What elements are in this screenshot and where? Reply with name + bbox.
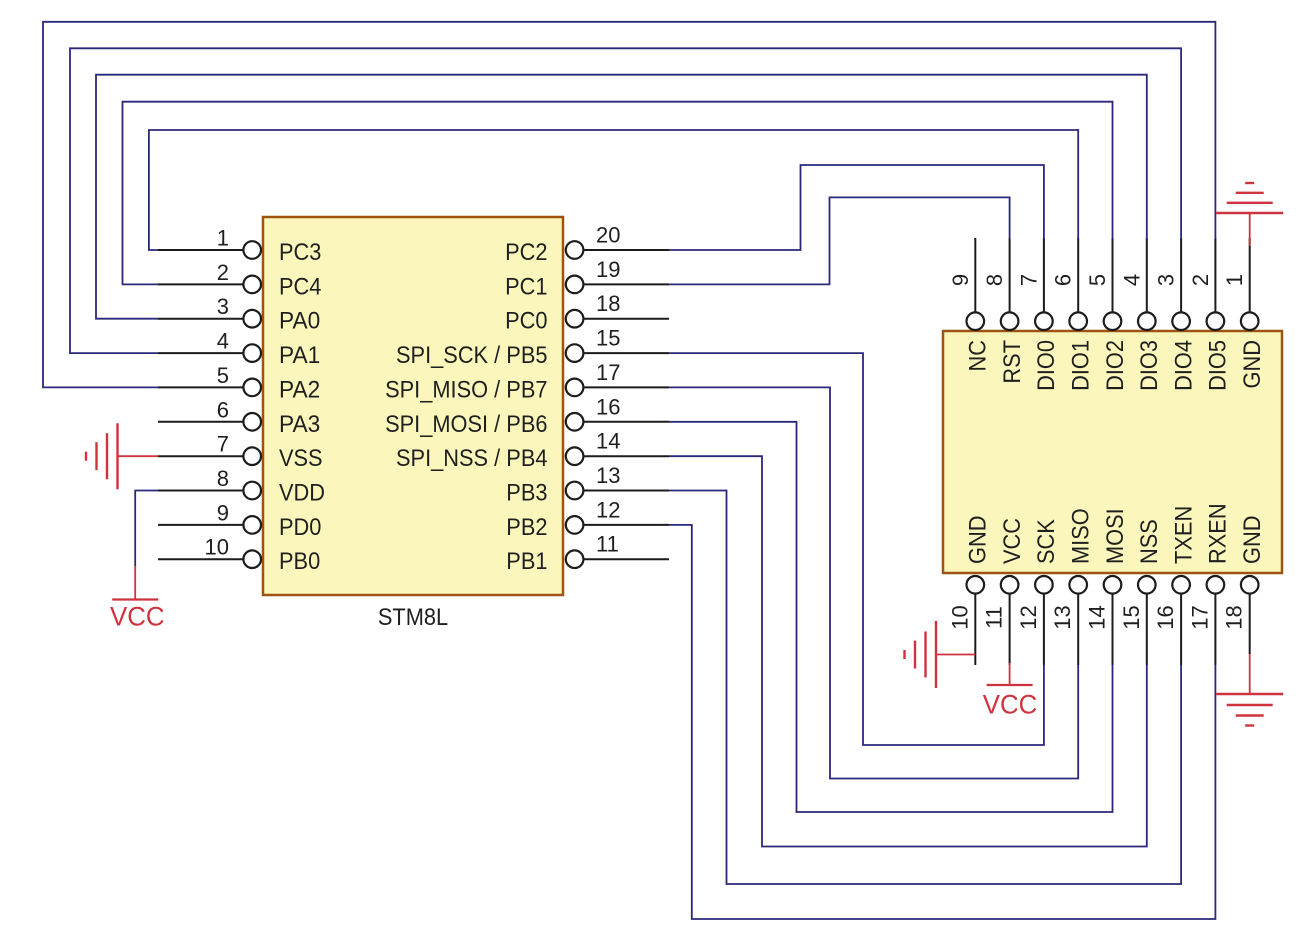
U2 pin 12 (SCK) bottom lead <box>1043 594 1045 665</box>
U2 pin 15 (NSS) bottom lead <box>1146 594 1148 665</box>
U2 pin 12 circle <box>1035 576 1053 594</box>
U2 pin 10 (GND) bottom lead <box>974 594 976 665</box>
svg-text:VCC: VCC <box>110 602 165 632</box>
ground symbol GND at U2 pin10 pointing left <box>905 621 937 688</box>
svg-text:PB0: PB0 <box>279 548 320 575</box>
svg-text:11: 11 <box>596 532 619 557</box>
U2 pin 6 circle <box>1069 312 1087 330</box>
U2 pin 7 circle <box>1035 312 1053 330</box>
svg-text:8: 8 <box>217 466 229 491</box>
U1 pin 6 circle <box>243 413 261 431</box>
svg-text:14: 14 <box>1085 605 1110 629</box>
svg-text:11: 11 <box>982 606 1007 629</box>
U1 pin 2 (PC4) left lead <box>158 283 243 285</box>
svg-text:RXEN: RXEN <box>1205 503 1232 564</box>
svg-text:MOSI: MOSI <box>1102 508 1129 564</box>
U1 pin 13 circle <box>566 482 584 500</box>
svg-text:SPI_SCK / PB5: SPI_SCK / PB5 <box>396 342 548 369</box>
U1 pin 5 circle <box>243 379 261 397</box>
IC U2 RF module body <box>943 331 1282 573</box>
ground symbol GND at VSS pointing left <box>86 423 118 489</box>
U2 pin 5 (DIO2) top lead <box>1112 238 1114 312</box>
wire net PA0-DIO3 <box>96 75 1147 319</box>
svg-text:1: 1 <box>217 226 229 251</box>
svg-text:PC3: PC3 <box>279 239 321 266</box>
U1 pin 7 (VSS) left lead <box>158 455 243 457</box>
ground symbol GND bottom-right pointing down <box>1216 694 1283 726</box>
U1 pin 7 circle <box>243 447 261 465</box>
U2 pin 8 circle <box>1001 312 1019 330</box>
svg-text:VCC: VCC <box>999 518 1026 564</box>
U2 pin 7 (DIO0) top lead <box>1043 238 1045 312</box>
svg-text:13: 13 <box>596 463 620 488</box>
U1 pin 8 circle <box>243 482 261 500</box>
U1 pin 13 (PB3) right lead <box>583 490 669 492</box>
power symbol VCC below U2 <box>987 684 1033 686</box>
svg-text:GND: GND <box>965 516 992 565</box>
wire net PC1-RST <box>669 197 1010 284</box>
U2 pin 9 circle <box>967 312 985 330</box>
U1 pin 19 circle <box>566 276 584 294</box>
wire net PA1-DIO4 <box>70 48 1181 353</box>
svg-text:9: 9 <box>948 274 973 286</box>
U1 pin 14 circle <box>566 447 584 465</box>
U1 pin 19 (PC1) right lead <box>583 283 669 285</box>
svg-text:3: 3 <box>1154 274 1179 286</box>
U2 pin 15 circle <box>1138 576 1156 594</box>
U1 pin 3 (PA0) left lead <box>158 318 243 320</box>
wire net VDD-VCC <box>135 491 158 567</box>
svg-text:RST: RST <box>999 340 1026 384</box>
svg-text:MISO: MISO <box>1068 508 1095 564</box>
U1 pin 5 (PA2) left lead <box>158 386 243 388</box>
svg-text:10: 10 <box>205 535 229 560</box>
svg-text:DIO1: DIO1 <box>1068 340 1095 391</box>
svg-text:PA1: PA1 <box>279 342 320 369</box>
U1 pin 4 (PA1) left lead <box>158 352 243 354</box>
svg-text:17: 17 <box>596 360 620 385</box>
U2 pin 16 (TXEN) bottom lead <box>1180 594 1182 665</box>
wire net PC3-DIO1 <box>149 130 1078 250</box>
svg-text:NC: NC <box>965 340 992 372</box>
svg-text:PB2: PB2 <box>506 514 547 541</box>
svg-text:12: 12 <box>1016 605 1041 629</box>
U2 pin 6 (DIO1) top lead <box>1077 238 1079 312</box>
U2 pin 4 circle <box>1138 312 1156 330</box>
U1 pin 12 circle <box>566 516 584 534</box>
U1 pin 10 (PB0) left lead <box>158 558 243 560</box>
U1 pin 15 circle <box>566 344 584 362</box>
svg-text:SPI_NSS / PB4: SPI_NSS / PB4 <box>396 445 548 472</box>
U2 pin 1 (GND) top lead <box>1249 238 1251 312</box>
svg-text:12: 12 <box>596 497 620 522</box>
svg-text:PB3: PB3 <box>506 480 547 507</box>
svg-text:PB1: PB1 <box>506 548 547 575</box>
U1 pin 8 (VDD) left lead <box>158 490 243 492</box>
svg-text:6: 6 <box>1051 274 1076 286</box>
svg-text:18: 18 <box>1222 605 1247 629</box>
wire red to VCC at pin11 <box>1009 663 1011 685</box>
svg-text:VDD: VDD <box>279 480 325 507</box>
wire net MOSI <box>669 422 1113 812</box>
wire red to GND at VSS <box>118 455 159 457</box>
svg-text:NSS: NSS <box>1136 519 1163 564</box>
U2 pin 11 (VCC) bottom lead <box>1009 594 1011 665</box>
U2 pin 3 circle <box>1172 312 1190 330</box>
IC U1 STM8L body <box>263 217 563 595</box>
svg-text:SPI_MISO / PB7: SPI_MISO / PB7 <box>385 376 547 403</box>
svg-text:1: 1 <box>1222 274 1247 286</box>
U1 pin 20 circle <box>566 241 584 259</box>
U1 pin 4 circle <box>243 344 261 362</box>
svg-text:9: 9 <box>217 500 229 525</box>
svg-text:VSS: VSS <box>279 445 323 472</box>
svg-text:DIO4: DIO4 <box>1170 340 1197 391</box>
wire net NSS <box>669 456 1147 846</box>
svg-text:PC0: PC0 <box>505 308 547 335</box>
svg-text:7: 7 <box>217 432 229 457</box>
svg-text:PC1: PC1 <box>505 273 547 300</box>
svg-text:20: 20 <box>596 223 620 248</box>
wire net TXEN <box>669 491 1181 885</box>
svg-text:14: 14 <box>596 429 620 454</box>
svg-text:PA3: PA3 <box>279 411 320 438</box>
svg-text:PA0: PA0 <box>279 308 320 335</box>
U1 pin 9 circle <box>243 516 261 534</box>
power symbol VCC below U1 <box>112 598 158 600</box>
svg-text:PD0: PD0 <box>279 514 321 541</box>
svg-text:GND: GND <box>1239 516 1266 565</box>
svg-text:STM8L: STM8L <box>378 604 448 631</box>
svg-text:15: 15 <box>596 326 620 351</box>
U1 pin 9 (PD0) left lead <box>158 524 243 526</box>
wire net PC4-DIO2 <box>123 102 1113 285</box>
wire net MISO <box>669 387 1078 778</box>
U1 pin 2 circle <box>243 276 261 294</box>
U2 pin 9 (NC) top lead <box>974 238 976 312</box>
U2 pin 1 circle <box>1241 312 1259 330</box>
svg-text:VCC: VCC <box>983 690 1038 720</box>
U2 pin 3 (DIO4) top lead <box>1180 238 1182 312</box>
U1 pin 12 (PB2) right lead <box>583 524 669 526</box>
svg-text:TXEN: TXEN <box>1170 506 1197 564</box>
U2 pin 13 circle <box>1069 576 1087 594</box>
U2 pin 18 (GND) bottom lead <box>1249 594 1251 654</box>
U2 pin 14 (MOSI) bottom lead <box>1112 594 1114 665</box>
svg-text:GND: GND <box>1239 340 1266 389</box>
svg-text:6: 6 <box>217 397 229 422</box>
svg-text:15: 15 <box>1119 605 1144 629</box>
U1 pin 3 circle <box>243 310 261 328</box>
svg-text:10: 10 <box>947 605 972 629</box>
svg-text:PC2: PC2 <box>505 239 547 266</box>
U2 pin 2 (DIO5) top lead <box>1214 238 1216 312</box>
svg-text:DIO2: DIO2 <box>1102 340 1129 391</box>
U1 pin 17 (SPI_MISO / PB7) right lead <box>583 386 669 388</box>
U2 pin 11 circle <box>1001 576 1019 594</box>
wire net SCK <box>669 353 1044 745</box>
U1 pin 20 (PC2) right lead <box>583 249 669 251</box>
wire net RXEN <box>669 525 1215 919</box>
U2 pin 16 circle <box>1172 576 1190 594</box>
svg-text:19: 19 <box>596 257 620 282</box>
wire net PA2-DIO5 <box>43 22 1215 388</box>
U1 pin 18 circle <box>566 310 584 328</box>
svg-text:5: 5 <box>1085 274 1110 286</box>
svg-text:PA2: PA2 <box>279 376 320 403</box>
U1 pin 16 (SPI_MOSI / PB6) right lead <box>583 421 669 423</box>
wire red to GND pin10 <box>936 654 975 656</box>
svg-text:DIO0: DIO0 <box>1033 340 1060 391</box>
U1 pin 6 (PA3) left lead <box>158 421 243 423</box>
U1 pin 10 circle <box>243 550 261 568</box>
svg-text:3: 3 <box>217 294 229 319</box>
U1 pin 1 circle <box>243 241 261 259</box>
U2 pin 4 (DIO3) top lead <box>1146 238 1148 312</box>
svg-text:DIO3: DIO3 <box>1136 340 1163 391</box>
U2 pin 8 (RST) top lead <box>1009 238 1011 312</box>
wire red to GND pin18 <box>1249 654 1251 693</box>
svg-text:4: 4 <box>217 329 229 354</box>
U2 pin 14 circle <box>1104 576 1122 594</box>
U2 pin 17 (RXEN) bottom lead <box>1214 594 1216 665</box>
wire red to VCC at VDD <box>134 566 136 600</box>
U1 pin 15 (SPI_SCK / PB5) right lead <box>583 352 669 354</box>
U2 pin 13 (MISO) bottom lead <box>1077 594 1079 665</box>
U1 pin 17 circle <box>566 379 584 397</box>
U2 pin 17 circle <box>1207 576 1225 594</box>
U2 pin 10 circle <box>967 576 985 594</box>
U1 pin 16 circle <box>566 413 584 431</box>
svg-text:DIO5: DIO5 <box>1205 340 1232 391</box>
svg-text:PC4: PC4 <box>279 273 321 300</box>
svg-text:16: 16 <box>1153 605 1178 629</box>
U2 pin 18 circle <box>1241 576 1259 594</box>
svg-text:17: 17 <box>1187 605 1212 629</box>
svg-text:13: 13 <box>1050 605 1075 629</box>
U2 pin 5 circle <box>1104 312 1122 330</box>
svg-text:7: 7 <box>1016 274 1041 286</box>
wire net PC2-DIO0 <box>669 165 1044 250</box>
wire red to GND pin1 <box>1249 214 1251 246</box>
U1 pin 11 (PB1) right lead <box>583 558 669 560</box>
U1 pin 11 circle <box>566 550 584 568</box>
svg-text:2: 2 <box>217 260 229 285</box>
ground symbol GND top-right pointing up <box>1216 183 1283 213</box>
U1 pin 1 (PC3) left lead <box>158 249 243 251</box>
svg-text:8: 8 <box>982 274 1007 286</box>
U1 pin 18 (PC0) right lead <box>583 318 669 320</box>
svg-text:SCK: SCK <box>1033 519 1060 564</box>
U1 pin 14 (SPI_NSS / PB4) right lead <box>583 455 669 457</box>
svg-text:SPI_MOSI / PB6: SPI_MOSI / PB6 <box>385 411 547 438</box>
svg-text:5: 5 <box>217 363 229 388</box>
U2 pin 2 circle <box>1207 312 1225 330</box>
svg-text:4: 4 <box>1119 274 1144 286</box>
svg-text:18: 18 <box>596 291 620 316</box>
svg-text:16: 16 <box>596 394 620 419</box>
svg-text:2: 2 <box>1188 274 1213 286</box>
